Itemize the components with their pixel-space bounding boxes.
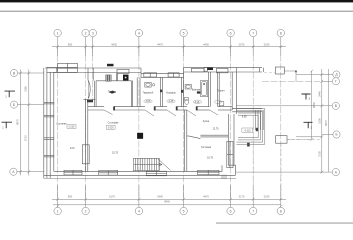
stairs: [133, 158, 170, 170]
svg-text:6850: 6850: [312, 102, 316, 108]
window W2 top (segment B): [117, 67, 228, 77]
right dimension texts: [312, 91, 328, 157]
boxed elevation label 2: [242, 128, 253, 132]
svg-text:2: 2: [85, 31, 87, 35]
black flue square 1: [123, 75, 129, 81]
tambour label arrow blob: [109, 91, 117, 94]
stair arrow: [134, 164, 162, 166]
svg-text:-0.020: -0.020: [244, 129, 251, 132]
window W4 top (segment C): [192, 68, 205, 72]
bottom dimension ticks: [56, 198, 282, 208]
left wall line 1: [43, 68, 45, 178]
window W3 top (segment B): [168, 73, 179, 77]
svg-text:2440: 2440: [157, 195, 163, 199]
top dimension ticks: [56, 45, 282, 48]
left section mark T2: [2, 122, 13, 128]
kitchen door leaf: [190, 136, 201, 138]
left grid bubble V: [10, 69, 18, 175]
svg-text:3160: 3160: [24, 86, 28, 92]
top wall inner segment B: [141, 76, 184, 78]
svg-text:4470: 4470: [203, 195, 209, 199]
top grid bubble 6: [227, 29, 234, 36]
right wall lower inner: [227, 114, 229, 165]
window W5 top (segment C): [217, 68, 229, 72]
entry threshold dark bar: [87, 100, 93, 102]
left leader B: [18, 104, 44, 106]
svg-text:4430: 4430: [203, 43, 209, 47]
door leaf 0 (tambour): [104, 110, 218, 116]
right wall lower outer: [233, 114, 235, 165]
door leaf 2: [167, 110, 176, 116]
svg-text:4430: 4430: [111, 43, 117, 47]
toilet room fixture: [219, 102, 223, 106]
entry door leaf: [88, 81, 90, 99]
svg-text:Столовая: Столовая: [108, 122, 119, 125]
left dimension line 1: [17, 70, 44, 176]
bottom dimension texts: [68, 195, 270, 204]
top wall inner segment C: [184, 71, 263, 73]
left section mark T1: [2, 91, 16, 128]
door hinge mark: [181, 90, 183, 93]
right leader V: [236, 105, 332, 107]
right section mark T2: [304, 122, 313, 128]
left wall line 2: [46, 72, 48, 171]
entry threshold: [84, 98, 96, 100]
bottom grid bubble 1: [54, 207, 285, 214]
left grid bubble A: [10, 168, 17, 175]
bottom grid bubble 8: [277, 207, 284, 214]
top black bar: [0, 0, 353, 2]
bay window top-left: [58, 63, 78, 72]
step connector at axis 4: [140, 68, 142, 77]
svg-text:1: 1: [57, 209, 59, 213]
left leader A: [17, 171, 44, 173]
svg-text:15.75: 15.75: [112, 152, 119, 155]
right leader D: [296, 74, 333, 76]
svg-text:800: 800: [68, 195, 73, 199]
right leader B: [296, 136, 322, 138]
bathroom fixtures: washbasin: [87, 70, 297, 147]
floor drain: [197, 91, 200, 93]
left wall joint tick 2: [44, 115, 54, 117]
top bubble numbers: [57, 31, 282, 35]
bottom grid bubble 5: [180, 207, 187, 214]
svg-text:Коридор: Коридор: [166, 92, 176, 95]
bottom right jog: [228, 165, 235, 175]
left wall joint tick 1: [44, 102, 54, 104]
boxed elevation label 1: [67, 125, 115, 130]
bottom dimension line 1: [52, 185, 286, 207]
svg-text:4470: 4470: [157, 43, 163, 47]
svg-text:9940: 9940: [164, 200, 170, 204]
kitchen partition horizontal: [200, 134, 228, 136]
top grid bubble 7: [250, 29, 257, 36]
svg-text:Туалет: Туалет: [217, 90, 225, 93]
right bubble leader line: [328, 69, 330, 172]
svg-text:2190: 2190: [264, 43, 270, 47]
top wall end cap: [263, 68, 265, 72]
bottom bubble numbers: [57, 209, 282, 213]
partition P4: [180, 77, 182, 106]
svg-text:3.05: 3.05: [146, 100, 151, 103]
bottom wall outer: [44, 174, 236, 176]
right grid bubble G: [332, 78, 339, 85]
door leaf 1: [145, 110, 154, 116]
svg-text:24.9: 24.9: [70, 147, 75, 150]
svg-text:4: 4: [138, 209, 140, 213]
svg-text:Ванная: Ванная: [192, 89, 201, 92]
right grid bubble D: [332, 71, 340, 176]
svg-text:0.000: 0.000: [108, 127, 114, 129]
left leader V: [18, 72, 44, 74]
svg-text:1: 1: [57, 31, 59, 35]
porch pier: [275, 67, 287, 143]
right dimension ticks: [310, 70, 323, 174]
tambour wall horizontal: [232, 107, 262, 109]
steps dark tick 1: [256, 128, 258, 131]
left wall line 4: [53, 72, 55, 171]
svg-text:12.75: 12.75: [213, 127, 220, 130]
top wall inner segment A: [54, 72, 141, 74]
garderob washbasin: [145, 82, 155, 87]
bottom right rule: [216, 223, 353, 224]
bottom wall window 1: [64, 141, 233, 175]
svg-text:Гостиная: Гостиная: [56, 122, 67, 125]
svg-text:9870: 9870: [324, 120, 328, 126]
svg-text:2: 2: [85, 209, 87, 213]
svg-text:7: 7: [252, 209, 254, 213]
svg-text:4.16: 4.16: [195, 101, 200, 104]
right grid bubble V: [332, 102, 339, 109]
dashed link top pier: [253, 73, 320, 197]
bottom grid bubble 2: [82, 207, 89, 214]
header rule: [0, 11, 353, 12]
left corner pier: [47, 67, 57, 72]
svg-text:5: 5: [183, 209, 185, 213]
stair cut line: [158, 159, 171, 170]
top dimension line: [52, 37, 286, 56]
left wall joint tick 4: [44, 155, 54, 157]
svg-text:3730: 3730: [318, 151, 322, 157]
top grid bubble 4: [135, 29, 142, 36]
walls group: [44, 67, 264, 178]
door leaf 3: [187, 110, 196, 116]
bottom grid bubble 6: [227, 207, 234, 214]
steps dark tick 2: [247, 143, 249, 146]
svg-text:5: 5: [183, 31, 185, 35]
right section mark T1: [302, 94, 313, 128]
black stove square: [137, 133, 143, 139]
svg-text:6710: 6710: [24, 135, 28, 141]
right leader G: [322, 80, 333, 82]
svg-text:Гостиная: Гостиная: [201, 146, 212, 149]
right steps hatch: [255, 110, 263, 130]
svg-text:7: 7: [252, 31, 254, 35]
partition P3: [160, 77, 162, 106]
svg-text:Тамбур: Тамбур: [108, 91, 117, 94]
left wall line 3: [49, 72, 51, 171]
left dimension ticks: [19, 72, 30, 174]
interior partition P1: [82, 72, 228, 172]
room label: tambour: [56, 89, 247, 160]
left wall joint tick 3: [44, 138, 54, 140]
svg-text:Б: Б: [335, 133, 337, 137]
right grid bubble B: [333, 131, 340, 138]
dark vent bar 1: [107, 64, 114, 67]
partition P7 (axis4): [136, 77, 138, 106]
bottom corner steps hatch: [222, 175, 226, 179]
door leaf 4: [210, 110, 219, 115]
svg-text:Гардероб: Гардероб: [143, 92, 154, 95]
grid axis lines (dashed verticals): [58, 46, 281, 198]
vent hatched square: [106, 75, 112, 81]
left bubble letters: [12, 71, 16, 174]
right wall upper inner: [231, 72, 233, 110]
svg-text:Г: Г: [335, 80, 337, 84]
partition tambour P2: [130, 81, 132, 107]
top grid bubble 8: [277, 29, 284, 36]
left dimension texts: [15, 86, 27, 141]
svg-text:0.000: 0.000: [69, 127, 75, 129]
svg-text:9870: 9870: [15, 119, 19, 125]
toilet: [184, 98, 188, 101]
bottom wall window 4: [198, 170, 220, 174]
top wall outer segment C: [184, 67, 263, 69]
svg-text:6: 6: [230, 209, 232, 213]
tambour left wall: [94, 81, 96, 107]
svg-text:В: В: [335, 104, 337, 108]
svg-text:2070: 2070: [239, 43, 245, 47]
right leader A: [236, 171, 332, 173]
top dimension texts: [68, 43, 270, 47]
bottom-left corner block: [46, 171, 48, 178]
vent duct side lines: [115, 74, 117, 81]
window top wall small: [117, 69, 129, 73]
svg-text:6: 6: [230, 31, 232, 35]
partition P6 kitchen/living: [184, 110, 186, 171]
right bubble letters: [335, 73, 339, 175]
dark vent bar 2: [207, 67, 213, 70]
svg-text:16.75: 16.75: [207, 157, 214, 160]
svg-text:2440: 2440: [318, 91, 322, 97]
partition P5b: [216, 72, 218, 107]
top grid bubble 3: [89, 29, 96, 36]
top wall outer segment B: [141, 73, 184, 75]
left dimension line 2: [28, 70, 30, 176]
bottom grid bubble 4: [135, 207, 142, 214]
left section digits: [2, 95, 7, 130]
svg-text:2190: 2190: [264, 195, 270, 199]
grid axis lines (dashed horizontals): [262, 82, 320, 140]
right dimension line inner: [236, 69, 333, 173]
svg-text:8: 8: [280, 31, 282, 35]
right wall window: [227, 141, 233, 167]
middle wall (horizontal): [88, 107, 232, 110]
svg-text:6.05: 6.05: [242, 115, 247, 118]
svg-text:800: 800: [68, 43, 73, 47]
right grid bubble A: [332, 169, 339, 176]
tambour shelf line: [96, 80, 131, 82]
top grid bubble 5: [180, 29, 187, 36]
svg-text:8: 8: [280, 209, 282, 213]
svg-text:Кухня: Кухня: [203, 120, 210, 123]
svg-text:3100: 3100: [318, 118, 322, 124]
svg-text:3: 3: [92, 31, 94, 35]
bottom wall window 2: [99, 171, 118, 176]
bathtub: [201, 80, 208, 96]
partition P5: [208, 72, 210, 107]
top wall outer segment A: [45, 67, 141, 69]
entry recess walls: [84, 68, 96, 99]
bottom dimension line 2 (overall): [53, 204, 281, 206]
leader arrowhead: [295, 70, 297, 72]
entrance steps (nested): [237, 109, 265, 145]
right wall upper outer: [236, 68, 238, 114]
left grid bubble B: [10, 101, 17, 108]
right section digits: [309, 97, 313, 130]
P1 door pocket: [82, 145, 89, 164]
door hinge dark ticks: [113, 106, 197, 110]
svg-text:4: 4: [138, 31, 140, 35]
bottom wall footing: [44, 177, 236, 179]
bottom wall inner: [54, 171, 222, 173]
svg-text:3170: 3170: [239, 195, 245, 199]
top grid bubble 2: [82, 29, 89, 36]
bottom wall window 3: [146, 171, 166, 176]
right dimension line mid: [321, 69, 323, 173]
top grid bubble 1: [54, 29, 285, 36]
area label ovals: [144, 100, 222, 104]
svg-text:5170: 5170: [109, 195, 115, 199]
bottom grid bubble 7: [250, 207, 257, 214]
step connector at axis 5: [183, 68, 185, 78]
svg-text:2.45: 2.45: [169, 100, 174, 103]
